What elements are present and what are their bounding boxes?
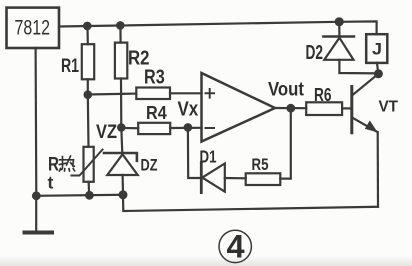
wire op-amp output to Vout node and R6 bbox=[275, 107, 306, 109]
regulator 7812 bbox=[7, 8, 60, 48]
thermistor R热 bbox=[72, 147, 103, 182]
wire D2 cathode lead from top rail bbox=[338, 22, 340, 38]
wire R3 left lead bbox=[88, 92, 137, 95]
node Vx bbox=[184, 123, 193, 132]
wire D1 anode to R5 bbox=[225, 177, 246, 180]
relay J bbox=[366, 34, 387, 63]
zener diode DZ bbox=[104, 153, 138, 175]
svg-text:Vx: Vx bbox=[178, 98, 199, 120]
wire feedback from Vx node down to D1 bbox=[188, 127, 201, 178]
node relay / D2 / collector bbox=[374, 69, 383, 78]
svg-text:t: t bbox=[48, 173, 54, 193]
wire thermistor bottom lead bbox=[87, 182, 90, 196]
wire R4 right lead to op-amp - input bbox=[170, 127, 201, 129]
label R热 bbox=[48, 154, 75, 176]
figure number 4 circled bbox=[219, 229, 251, 265]
svg-text:DZ: DZ bbox=[141, 156, 158, 175]
wire R1 top lead bbox=[86, 26, 89, 44]
svg-text:R1: R1 bbox=[61, 55, 79, 77]
svg-text:J: J bbox=[372, 40, 382, 59]
svg-text:R5: R5 bbox=[252, 155, 269, 174]
resistor R2 bbox=[115, 43, 127, 79]
node R1 / R3 / thermistor bbox=[84, 90, 93, 99]
wire bottom-left rail bbox=[36, 195, 123, 196]
node top rail / D2 bbox=[335, 17, 344, 26]
ground bbox=[25, 196, 53, 233]
svg-text:VT: VT bbox=[379, 99, 399, 116]
op-amp plus sign bbox=[206, 89, 215, 98]
diode D2 bbox=[323, 37, 354, 60]
svg-text:R4: R4 bbox=[146, 102, 167, 123]
node Vout bbox=[286, 104, 295, 113]
wire R6 right lead to VT base bbox=[342, 107, 352, 109]
wire R5 right lead up to Vout node bbox=[280, 108, 291, 178]
wire VT emitter down to bottom rail bbox=[377, 132, 379, 207]
svg-text:VZ: VZ bbox=[96, 122, 117, 143]
wire 7812 ground lead (left vertical) bbox=[34, 48, 37, 196]
wire R3 right lead to op-amp + input bbox=[170, 92, 202, 94]
svg-text:D2: D2 bbox=[306, 42, 324, 64]
wire R4 left lead bbox=[121, 127, 138, 129]
resistor R6 bbox=[306, 102, 342, 115]
wire thermistor top lead bbox=[87, 95, 90, 147]
wire R2 top lead bbox=[119, 25, 121, 42]
wire DZ bottom lead bbox=[121, 175, 124, 195]
node top rail / R2 bbox=[116, 21, 125, 30]
wire bottom rail (DZ node to emitter) bbox=[123, 195, 378, 211]
wire R2 bottom lead down to VZ node bbox=[120, 79, 123, 128]
wire relay J bottom lead bbox=[377, 63, 378, 74]
wire top rail from 7812 output to relay corner bbox=[59, 21, 377, 34]
svg-text:7812: 7812 bbox=[15, 16, 51, 40]
resistor R1 bbox=[82, 44, 94, 79]
resistor R4 bbox=[138, 123, 170, 134]
resistor R3 bbox=[136, 88, 170, 100]
op-amp U1 bbox=[202, 73, 276, 142]
wire DZ top lead bbox=[121, 128, 122, 154]
node DZ bottom bbox=[119, 190, 128, 199]
wire D2 anode to relay bottom node bbox=[339, 60, 378, 74]
wire R1 bottom lead bbox=[87, 79, 89, 94]
svg-text:R6: R6 bbox=[314, 84, 332, 105]
op-amp minus sign bbox=[206, 127, 215, 129]
node top rail / R1 bbox=[83, 22, 92, 31]
node ground tap bbox=[32, 191, 41, 200]
svg-text:D1: D1 bbox=[200, 147, 217, 167]
transistor VT bbox=[352, 75, 378, 133]
node VZ / R4 / DZ bbox=[117, 123, 126, 132]
svg-text:4: 4 bbox=[226, 229, 244, 265]
node thermistor bottom bbox=[85, 191, 94, 200]
svg-text:Vout: Vout bbox=[268, 79, 305, 100]
svg-text:R3: R3 bbox=[144, 66, 165, 88]
resistor R5 bbox=[246, 173, 281, 185]
diode D1 bbox=[201, 163, 225, 193]
